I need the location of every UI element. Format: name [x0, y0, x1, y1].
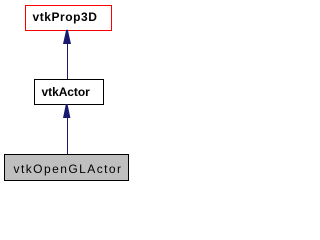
- label vtkOpenGLActor: [14, 163, 123, 175]
- label vtkActor: [42, 86, 90, 98]
- arrow vtkOpenGLActor -> vtkActor : head: [63, 104, 70, 118]
- arrow vtkOpenGLActor -> vtkActor : shaft: [67, 118, 69, 155]
- class box vtkOpenGLActor (current class, grey fill): [4, 154, 129, 181]
- inheritance arrows overlay: [0, 0, 133, 187]
- class box vtkProp3D (red-bordered base class node): [25, 5, 112, 31]
- label vtkProp3D: [33, 11, 98, 23]
- arrow vtkActor -> vtkProp3D : head: [63, 30, 71, 44]
- class box vtkActor (middle node): [34, 79, 104, 105]
- arrow vtkActor -> vtkProp3D : shaft: [67, 44, 69, 80]
